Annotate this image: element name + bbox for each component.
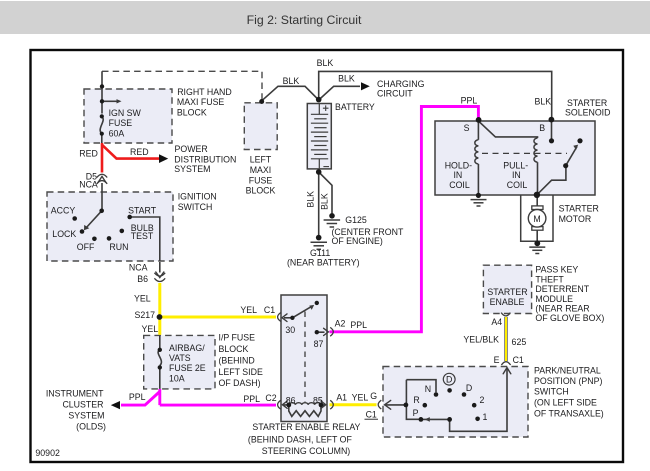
svg-text:STARTER: STARTER bbox=[559, 204, 599, 214]
svg-text:B: B bbox=[539, 123, 545, 133]
svg-text:NCA: NCA bbox=[79, 179, 98, 189]
svg-text:A2: A2 bbox=[335, 319, 346, 329]
svg-text:STARTER: STARTER bbox=[487, 287, 527, 297]
svg-text:BLK: BLK bbox=[338, 74, 355, 84]
svg-text:IGN SW: IGN SW bbox=[109, 108, 142, 118]
svg-text:BLOCK: BLOCK bbox=[177, 107, 207, 117]
svg-text:DISTRIBUTION: DISTRIBUTION bbox=[174, 154, 236, 164]
svg-text:OF ENGINE): OF ENGINE) bbox=[332, 236, 383, 246]
svg-text:(BEHIND: (BEHIND bbox=[219, 356, 255, 366]
svg-text:RED: RED bbox=[79, 148, 98, 158]
svg-text:MODULE: MODULE bbox=[535, 294, 573, 304]
svg-text:PPL: PPL bbox=[129, 392, 146, 402]
svg-text:MOTOR: MOTOR bbox=[559, 214, 592, 224]
svg-text:OFF: OFF bbox=[77, 242, 95, 252]
svg-text:87: 87 bbox=[314, 339, 324, 349]
svg-text:CLUSTER: CLUSTER bbox=[62, 399, 103, 409]
svg-text:SYSTEM: SYSTEM bbox=[68, 410, 104, 420]
svg-text:S217: S217 bbox=[134, 310, 155, 320]
svg-text:START: START bbox=[128, 205, 157, 215]
svg-text:(OLDS): (OLDS) bbox=[76, 422, 106, 432]
svg-text:B6: B6 bbox=[137, 274, 148, 284]
svg-text:SYSTEM: SYSTEM bbox=[174, 164, 210, 174]
svg-text:30: 30 bbox=[285, 325, 295, 335]
svg-text:PARK/NEUTRAL: PARK/NEUTRAL bbox=[534, 366, 601, 376]
svg-text:C1: C1 bbox=[366, 410, 377, 420]
svg-text:FUSE: FUSE bbox=[109, 118, 133, 128]
svg-text:INSTRUMENT: INSTRUMENT bbox=[46, 389, 104, 399]
svg-text:2: 2 bbox=[480, 395, 485, 405]
svg-text:OF TRANSAXLE): OF TRANSAXLE) bbox=[534, 409, 604, 419]
svg-text:SOLENOID: SOLENOID bbox=[565, 107, 610, 117]
svg-text:VATS: VATS bbox=[169, 353, 191, 363]
svg-text:10A: 10A bbox=[169, 373, 185, 383]
svg-text:G125: G125 bbox=[345, 215, 367, 225]
svg-text:625: 625 bbox=[512, 337, 527, 347]
svg-text:BLK: BLK bbox=[320, 193, 330, 210]
svg-text:STARTER: STARTER bbox=[567, 98, 607, 108]
svg-text:COIL: COIL bbox=[507, 180, 528, 190]
svg-text:D: D bbox=[466, 383, 472, 393]
svg-text:DETERRENT: DETERRENT bbox=[535, 284, 589, 294]
svg-text:BLK: BLK bbox=[534, 97, 551, 107]
svg-text:MAXI FUSE: MAXI FUSE bbox=[177, 97, 225, 107]
svg-text:E: E bbox=[494, 355, 500, 365]
svg-text:TEST: TEST bbox=[131, 231, 154, 241]
svg-text:ACCY: ACCY bbox=[51, 205, 76, 215]
svg-text:(BEHIND DASH, LEFT OF: (BEHIND DASH, LEFT OF bbox=[248, 435, 353, 445]
svg-text:LOCK: LOCK bbox=[52, 229, 76, 239]
svg-text:RIGHT HAND: RIGHT HAND bbox=[177, 87, 232, 97]
svg-text:BLOCK: BLOCK bbox=[246, 186, 276, 196]
svg-text:BLOCK: BLOCK bbox=[219, 344, 249, 354]
svg-text:SWITCH: SWITCH bbox=[178, 202, 213, 212]
svg-text:60A: 60A bbox=[109, 129, 125, 139]
svg-text:86: 86 bbox=[286, 395, 296, 405]
svg-text:85: 85 bbox=[313, 395, 323, 405]
svg-text:SWITCH: SWITCH bbox=[534, 387, 569, 397]
svg-text:(ON LEFT SIDE: (ON LEFT SIDE bbox=[534, 398, 597, 408]
svg-text:THEFT: THEFT bbox=[535, 274, 564, 284]
svg-text:I/P FUSE: I/P FUSE bbox=[219, 333, 256, 343]
svg-text:BLK: BLK bbox=[283, 76, 300, 86]
svg-text:RUN: RUN bbox=[109, 242, 128, 252]
svg-text:CIRCUIT: CIRCUIT bbox=[377, 88, 413, 98]
svg-text:ENABLE: ENABLE bbox=[490, 297, 525, 307]
svg-text:YEL: YEL bbox=[352, 393, 369, 403]
svg-text:R: R bbox=[413, 395, 419, 405]
svg-text:(NEAR REAR: (NEAR REAR bbox=[535, 304, 589, 314]
svg-text:POSITION (PNP): POSITION (PNP) bbox=[534, 376, 602, 386]
svg-text:BLK: BLK bbox=[317, 58, 334, 68]
svg-text:POWER: POWER bbox=[175, 144, 208, 154]
svg-text:N: N bbox=[425, 384, 431, 394]
svg-text:RED: RED bbox=[130, 147, 149, 157]
svg-text:S: S bbox=[464, 123, 470, 133]
svg-text:YEL: YEL bbox=[240, 305, 257, 315]
svg-text:LEFT SIDE: LEFT SIDE bbox=[219, 367, 263, 377]
svg-text:C1: C1 bbox=[264, 305, 275, 315]
svg-text:BATTERY: BATTERY bbox=[335, 102, 375, 112]
svg-text:FUSE 2E: FUSE 2E bbox=[169, 363, 206, 373]
svg-text:PPL: PPL bbox=[461, 96, 478, 106]
svg-text:BLK: BLK bbox=[306, 191, 316, 208]
svg-text:G111: G111 bbox=[310, 248, 330, 258]
svg-text:D: D bbox=[446, 375, 452, 385]
svg-text:COIL: COIL bbox=[449, 180, 470, 190]
svg-text:YEL: YEL bbox=[134, 293, 151, 303]
svg-text:STEERING COLUMN): STEERING COLUMN) bbox=[262, 446, 351, 456]
svg-text:M: M bbox=[533, 214, 540, 224]
svg-text:NCA: NCA bbox=[129, 262, 148, 272]
svg-text:IGNITION: IGNITION bbox=[178, 192, 217, 202]
svg-text:PPL: PPL bbox=[350, 320, 367, 330]
svg-text:MAXI: MAXI bbox=[250, 165, 272, 175]
svg-text:(NEAR BATTERY): (NEAR BATTERY) bbox=[287, 258, 360, 268]
svg-text:FUSE: FUSE bbox=[249, 175, 273, 185]
svg-text:A4: A4 bbox=[491, 317, 502, 327]
svg-text:90902: 90902 bbox=[35, 448, 60, 458]
svg-text:OF GLOVE BOX): OF GLOVE BOX) bbox=[535, 313, 604, 323]
svg-text:IN: IN bbox=[512, 170, 521, 180]
svg-text:STARTER ENABLE RELAY: STARTER ENABLE RELAY bbox=[252, 422, 360, 432]
svg-text:YEL: YEL bbox=[142, 324, 159, 334]
svg-text:LEFT: LEFT bbox=[250, 155, 272, 165]
svg-text:YEL/BLK: YEL/BLK bbox=[463, 335, 499, 345]
svg-text:P: P bbox=[413, 408, 419, 418]
svg-text:A1: A1 bbox=[336, 393, 347, 403]
svg-text:AIRBAG/: AIRBAG/ bbox=[169, 343, 205, 353]
svg-text:OF DASH): OF DASH) bbox=[219, 378, 261, 388]
svg-text:1: 1 bbox=[483, 412, 488, 422]
svg-text:PASS KEY: PASS KEY bbox=[535, 264, 578, 274]
svg-text:PPL: PPL bbox=[243, 394, 260, 404]
svg-text:G: G bbox=[370, 391, 377, 401]
svg-text:IN: IN bbox=[453, 170, 462, 180]
svg-text:C1: C1 bbox=[513, 355, 524, 365]
svg-text:C2: C2 bbox=[265, 393, 276, 403]
